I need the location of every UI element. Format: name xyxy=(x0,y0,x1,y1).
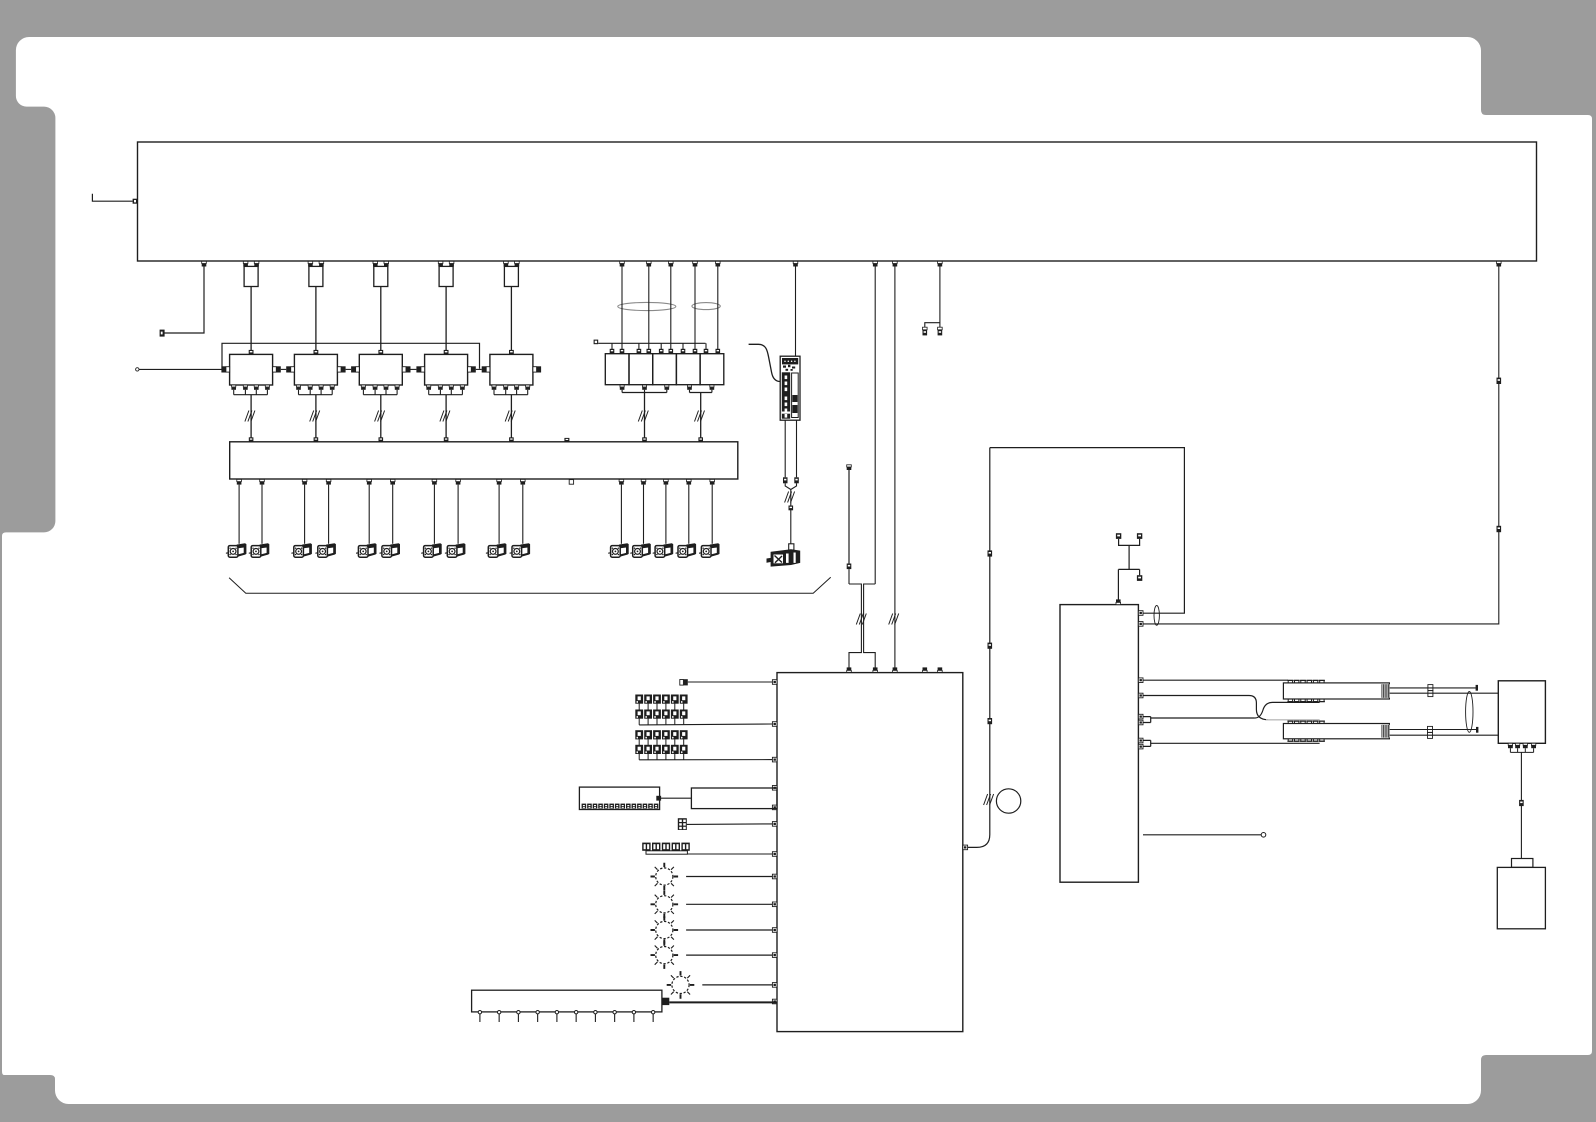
harness merge into twin cable xyxy=(849,584,875,668)
motor M8 xyxy=(445,544,465,557)
module box U5 left pin xyxy=(486,367,490,372)
wire to motor M9 xyxy=(498,485,500,544)
connector stub CN3 housing xyxy=(374,266,388,286)
wire stub CN3 to module box 3 xyxy=(380,287,382,351)
chain wire U4-U5 xyxy=(476,368,482,370)
relay K4 top pins xyxy=(681,349,686,354)
cable wrap ellipse right xyxy=(692,303,720,310)
drum unit top pin xyxy=(1116,599,1121,604)
curved signal wire into servo driver xyxy=(749,344,781,381)
module box U1 xyxy=(230,354,273,385)
buzzer row bar xyxy=(646,851,687,854)
motor M5 xyxy=(356,544,376,557)
bus top pin for U4 xyxy=(444,437,449,442)
relay bank drop wire 4 xyxy=(682,343,684,349)
bus bottom pin 15 xyxy=(710,479,715,484)
connector stub CN2 pins on PCB bottom xyxy=(308,261,313,266)
cable from module box U4 to I/O bus xyxy=(445,395,447,438)
wire to motor M7 xyxy=(433,485,435,544)
module box U4 top pin xyxy=(444,350,449,355)
wire stub CN5 to module box 5 xyxy=(510,287,512,351)
module box U4 left pin xyxy=(421,367,425,372)
pin on PCB bottom at x204 xyxy=(202,261,207,266)
wire display to LCD holder xyxy=(660,797,692,799)
wire from pin x204 down-left to connector xyxy=(164,267,204,334)
pin on PCB bottom for servo driver xyxy=(793,261,798,266)
key switch matrix group 1 xyxy=(635,695,643,704)
heater coil 1 (upper) xyxy=(1283,683,1389,699)
servo cable connector xyxy=(789,506,794,511)
Y-split terminals xyxy=(923,327,928,330)
coil2 inline connector xyxy=(1428,726,1433,732)
coil2 wires right xyxy=(1389,729,1476,731)
motor M12 xyxy=(630,544,650,557)
Y-split wire x940 xyxy=(925,267,940,328)
connector at end of wire x204 xyxy=(160,330,165,337)
harness wire x875 xyxy=(874,267,876,585)
door/frame loop rectangle xyxy=(990,448,1185,614)
key matrix bus 1 xyxy=(639,723,772,726)
lamp L2 xyxy=(651,891,679,919)
cable from module box U5 to I/O bus xyxy=(510,395,512,438)
motor M14 xyxy=(676,544,696,557)
module box U1 left pin xyxy=(226,367,230,372)
chain wire U3-U4 xyxy=(411,368,417,370)
module box U4 bottom pin comb xyxy=(427,385,431,387)
display module (LED board) xyxy=(579,787,659,809)
daisy-chain bus wire above module boxes xyxy=(222,343,480,369)
wire stub to main PCB left (AC input) xyxy=(92,194,132,201)
cable hatch U3 xyxy=(375,411,385,422)
wire PCB to relay 5 xyxy=(717,267,719,350)
relay bank drop wire 1 xyxy=(611,343,613,349)
display board output pin xyxy=(656,796,661,801)
wire to motor M12 xyxy=(643,485,645,544)
wire PCB to relay 1 xyxy=(621,267,623,350)
bus bottom pin 14 xyxy=(687,479,692,484)
module box U3 left pin xyxy=(356,367,360,372)
pin on PCB bottom for relay 2 xyxy=(647,261,652,266)
wire igniter to capacitor xyxy=(1520,752,1522,858)
motor M7 xyxy=(421,544,441,557)
relay group2 cable to bus xyxy=(700,393,702,438)
lamp L3 xyxy=(651,916,679,944)
bus bottom pin 11 xyxy=(619,479,624,484)
connector stub CN2 housing xyxy=(309,266,323,286)
LCD holder rect xyxy=(691,788,777,809)
wire buzzer to control box xyxy=(687,853,772,855)
wire to motor M10 xyxy=(522,485,524,544)
relay K2 top pins xyxy=(637,349,642,354)
relay bank bus wire xyxy=(598,342,705,344)
terminal strip output lug xyxy=(662,998,669,1005)
relay K3 top pins xyxy=(659,349,664,354)
heater coil 2 (lower) xyxy=(1283,724,1389,739)
wire to motor M2 xyxy=(261,485,263,544)
module box U3 xyxy=(359,354,402,385)
cable loop ellipse on frame wire xyxy=(1154,606,1159,626)
lamp L4 xyxy=(651,941,679,969)
pin on PCB bottom for relay 3 xyxy=(669,261,674,266)
wire to motor M1 xyxy=(238,485,240,544)
wire stub CN4 to module box 4 xyxy=(445,287,447,351)
bus top pin for U1 xyxy=(249,437,254,442)
relay bank drop wire 5 xyxy=(705,343,707,349)
cable from module box U2 to I/O bus xyxy=(315,395,317,438)
key matrix bus 2 xyxy=(639,759,772,761)
relay K3 bottom pin xyxy=(665,385,669,387)
motor M4 xyxy=(315,544,335,557)
thermostat Y-cluster above drum unit xyxy=(1118,539,1139,600)
servo cable merge xyxy=(785,483,796,544)
drum unit right-edge pins xyxy=(1138,611,1143,616)
wire stub CN1 to module box 1 xyxy=(250,287,252,351)
bus top pin for U2 xyxy=(314,437,319,442)
pin on PCB bottom for relay 1 xyxy=(620,261,625,266)
long wire x1499 to drum unit xyxy=(1143,267,1499,624)
module box U1 bottom pin comb xyxy=(232,385,236,387)
relay cell K3 xyxy=(653,354,677,385)
bus bottom pin 10 xyxy=(521,479,526,484)
module box U5 top pin xyxy=(509,350,514,355)
connector stub CN5 pins on PCB bottom xyxy=(504,261,509,266)
connector stub CN4 pins on PCB bottom xyxy=(438,261,443,266)
connector stub CN1 pins on PCB bottom xyxy=(243,261,248,266)
wire to motor M11 xyxy=(620,485,622,544)
top-left connector to control box xyxy=(680,680,684,686)
bus bottom pin 8 xyxy=(456,479,461,484)
relay bank bus connector xyxy=(594,340,599,345)
module box U1 right pin xyxy=(273,367,277,372)
wire PCB to relay 2 xyxy=(648,267,650,350)
floating pin on bus top xyxy=(564,438,569,442)
cable hatch U2 xyxy=(310,411,320,422)
relay bank drop wire 2 xyxy=(638,343,640,349)
lamp L5 xyxy=(667,971,695,999)
control box top pins xyxy=(847,667,852,672)
motor M15 xyxy=(699,544,719,557)
module box U2 top pin xyxy=(314,350,319,355)
key switch matrix group 2 xyxy=(635,730,643,739)
bus bottom pin 13 xyxy=(664,479,669,484)
buzzer row (zigzag cells) xyxy=(642,843,650,851)
wire to motor M6 xyxy=(392,485,394,544)
relay divider gaps xyxy=(655,365,657,376)
module box U3 right pin xyxy=(402,367,406,372)
wire to motor M3 xyxy=(304,485,306,544)
pump motor circle xyxy=(996,789,1020,813)
module box U3 bottom pin comb xyxy=(361,385,365,387)
relay K1 top pins xyxy=(610,349,615,354)
wire to motor M4 xyxy=(328,485,330,544)
module box U5 bottom pin comb xyxy=(492,385,496,387)
relay cell K5 xyxy=(700,354,724,385)
bus top pin for U3 xyxy=(379,437,384,442)
module box U2 bottom pin comb xyxy=(296,385,300,387)
pin on PCB bottom x940 xyxy=(938,261,943,266)
pin on PCB bottom for relay 4 xyxy=(693,261,698,266)
connector stub CN1 housing xyxy=(244,266,258,286)
bus bottom pin 3 xyxy=(302,479,307,484)
control box left-edge pins xyxy=(772,680,777,685)
wire PCB to servo driver xyxy=(795,267,797,357)
module box U2 left pin xyxy=(291,367,295,372)
bus bottom pin 6 xyxy=(390,479,395,484)
wire to motor M14 xyxy=(688,485,690,544)
motor M11 xyxy=(608,544,628,557)
module box U3 top pin xyxy=(378,350,383,355)
relay K2 bottom pin xyxy=(642,385,646,387)
coil1 wires right xyxy=(1389,687,1476,689)
pins on PCB bottom x875/x895 xyxy=(873,261,878,266)
bus bottom pin 2 xyxy=(260,479,265,484)
relay cell K2 xyxy=(629,354,653,385)
motor M13 xyxy=(653,544,673,557)
motor M9 xyxy=(486,544,506,557)
module box U2 xyxy=(294,354,337,385)
wire stub CN2 to module box 2 xyxy=(315,287,317,351)
heater wire 1 (y680) xyxy=(1143,679,1288,681)
module box U5 xyxy=(490,354,533,385)
chain wire U2-U3 xyxy=(346,368,352,370)
pin on PCB bottom x1499 xyxy=(1497,261,1502,266)
servo driver unit xyxy=(780,356,800,420)
coil1 inline connector xyxy=(1428,685,1433,691)
wire PCB to relay 4 xyxy=(694,267,696,350)
connector stub CN3 pins on PCB bottom xyxy=(373,261,378,266)
cable hatch U5 xyxy=(505,411,515,422)
module box U1 top pin xyxy=(249,350,254,355)
bus bottom pin 7 xyxy=(432,479,437,484)
wire to motor M13 xyxy=(665,485,667,544)
wire pair bracket (y743) xyxy=(1143,740,1320,746)
wire to motor M8 xyxy=(457,485,459,544)
motor M1 xyxy=(226,544,246,557)
igniter bottom pins + comb xyxy=(1508,743,1512,745)
servo driver bottom wires xyxy=(784,420,786,477)
bus bottom pin 1 xyxy=(237,479,242,484)
relay group1 comb xyxy=(622,390,667,393)
thermistor wire to open terminal xyxy=(1143,834,1261,836)
connector stub CN4 housing xyxy=(439,266,453,286)
bus top pin for U5 xyxy=(509,437,514,442)
capacitor top cap xyxy=(1512,859,1533,868)
harness wire x849 with connectors xyxy=(847,465,852,470)
cable bundle ellipse right xyxy=(1466,692,1473,733)
module box U5 right pin xyxy=(533,367,537,372)
harness wire x895 xyxy=(894,267,896,669)
pin on PCB bottom for relay 5 xyxy=(716,261,721,266)
cable wrap ellipse left xyxy=(618,302,676,310)
wire to motor M15 xyxy=(711,485,713,544)
grouping bracket under motors xyxy=(229,577,831,593)
main PCB board (top rectangle) xyxy=(138,142,1537,261)
module box U2 right pin xyxy=(337,367,341,372)
terminal strip contacts xyxy=(478,1011,481,1014)
chain wire U1-U2 xyxy=(281,368,286,370)
relay K5 top pins xyxy=(704,349,709,354)
cable hatch U1 xyxy=(245,411,255,422)
DIP switch block xyxy=(678,818,687,830)
servo wire connectors xyxy=(783,477,788,483)
thick wire terminal strip to control box xyxy=(669,1001,777,1003)
relay cell K1 xyxy=(605,354,629,385)
cable hatch U4 xyxy=(440,411,450,422)
relay K4 bottom pin xyxy=(687,385,691,387)
control box right-edge pin xyxy=(963,845,968,850)
lamp L1 xyxy=(651,863,679,891)
cable from module box U3 to I/O bus xyxy=(380,395,382,438)
chain lead-in wire with open terminal xyxy=(136,368,139,371)
bus bottom pin 4 xyxy=(326,479,331,484)
control box (front panel PCB) xyxy=(777,673,963,1032)
wire pair bracket (y717) xyxy=(1143,717,1255,723)
motor M3 xyxy=(291,544,311,557)
gray wire to lower coil top xyxy=(1266,719,1320,721)
relay cell K4 xyxy=(676,354,700,385)
relay group1 cable to bus xyxy=(644,393,646,438)
drum unit (tall box) xyxy=(1060,605,1138,883)
servo motor xyxy=(789,544,794,550)
relay bank drop wire 3 xyxy=(660,343,662,349)
module box U4 xyxy=(425,354,468,385)
relay K5 bottom pin xyxy=(710,385,714,387)
motor M10 xyxy=(510,544,530,557)
motor M2 xyxy=(249,544,269,557)
terminal strip (bottom rect) xyxy=(472,990,662,1012)
capacitor body xyxy=(1497,867,1545,928)
cable from module box U1 to I/O bus xyxy=(250,395,252,438)
bus bottom pin 9 xyxy=(497,479,502,484)
connector stub CN5 housing xyxy=(504,266,518,286)
wire PCB to relay 3 xyxy=(670,267,672,350)
bus bottom pin 5 xyxy=(367,479,372,484)
bus bottom pin 12 xyxy=(641,479,646,484)
open pin under bus xyxy=(569,480,573,485)
harness wire left side of frame down to control box xyxy=(968,448,990,848)
relay group2 comb xyxy=(690,390,712,393)
heater wire 2 with crossover down xyxy=(1143,696,1268,720)
motor M6 xyxy=(380,544,400,557)
crossover up to coil1 bottom xyxy=(1255,702,1288,718)
relay K1 bottom pin xyxy=(620,385,624,387)
wire to motor M5 xyxy=(368,485,370,544)
connector CN-AC xyxy=(133,199,138,204)
wire DIP to control box xyxy=(687,823,773,826)
I/O bus board (long rectangle) xyxy=(230,442,738,479)
module box U4 right pin xyxy=(468,367,472,372)
igniter box xyxy=(1498,681,1545,744)
